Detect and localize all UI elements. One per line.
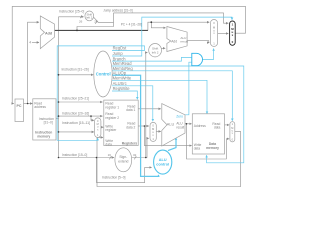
svg-text:ALU: ALU bbox=[159, 158, 167, 162]
svg-text:memory: memory bbox=[206, 146, 219, 150]
svg-text:Instruction [15–11]: Instruction [15–11] bbox=[62, 121, 90, 125]
svg-text:Instruction [25–0]: Instruction [25–0] bbox=[59, 10, 84, 14]
svg-text:Zero: Zero bbox=[176, 114, 183, 118]
svg-text:data: data bbox=[214, 126, 221, 130]
svg-text:Add: Add bbox=[45, 31, 53, 35]
svg-text:control: control bbox=[156, 163, 169, 167]
svg-text:data 1: data 1 bbox=[126, 108, 135, 112]
svg-text:MemWrite: MemWrite bbox=[113, 76, 132, 81]
svg-text:register 2: register 2 bbox=[105, 116, 119, 120]
svg-text:Sign-: Sign- bbox=[119, 155, 127, 159]
svg-text:data: data bbox=[194, 146, 201, 150]
svg-text:32: 32 bbox=[133, 153, 137, 157]
svg-text:Jump address [31–0]: Jump address [31–0] bbox=[103, 8, 132, 12]
svg-text:extend: extend bbox=[118, 159, 128, 163]
svg-text:PC: PC bbox=[17, 104, 22, 108]
svg-text:16: 16 bbox=[108, 153, 112, 157]
svg-text:28: 28 bbox=[94, 20, 98, 24]
svg-text:Add: Add bbox=[171, 39, 177, 43]
svg-text:4: 4 bbox=[29, 41, 31, 45]
svg-text:result: result bbox=[176, 125, 184, 129]
svg-text:RegDst: RegDst bbox=[113, 46, 128, 51]
svg-text:Instruction [20–16]: Instruction [20–16] bbox=[62, 111, 89, 115]
svg-text:ALU: ALU bbox=[167, 122, 175, 126]
svg-text:Instruction [31–26]: Instruction [31–26] bbox=[62, 67, 89, 71]
svg-text:left 2: left 2 bbox=[86, 16, 93, 20]
svg-text:result: result bbox=[180, 40, 188, 44]
svg-text:register: register bbox=[105, 128, 117, 132]
svg-text:26: 26 bbox=[79, 20, 83, 24]
svg-text:Address: Address bbox=[194, 124, 206, 128]
svg-text:address: address bbox=[34, 105, 46, 109]
svg-text:Registers: Registers bbox=[122, 141, 138, 145]
svg-text:register 1: register 1 bbox=[105, 106, 119, 110]
svg-text:Instruction [5–0]: Instruction [5–0] bbox=[102, 175, 126, 179]
svg-text:data: data bbox=[105, 142, 112, 146]
svg-text:Control: Control bbox=[96, 72, 111, 77]
svg-text:Instruction [15–0]: Instruction [15–0] bbox=[62, 153, 87, 157]
svg-text:memory: memory bbox=[37, 135, 50, 139]
svg-text:data 2: data 2 bbox=[126, 126, 135, 130]
svg-text:Instruction [25–21]: Instruction [25–21] bbox=[62, 97, 89, 101]
svg-text:[31–0]: [31–0] bbox=[44, 120, 53, 124]
svg-text:RegWrite: RegWrite bbox=[113, 86, 131, 91]
svg-text:left 2: left 2 bbox=[152, 50, 159, 54]
svg-text:PC + 4 [31–28]: PC + 4 [31–28] bbox=[121, 22, 142, 26]
